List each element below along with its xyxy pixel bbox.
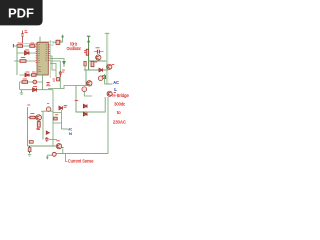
transistor Q9	[82, 87, 92, 96]
wire stub above IC	[39, 37, 41, 43]
sensor X2 (current transformer)	[52, 152, 56, 156]
svg-text:Current Sense: Current Sense	[68, 159, 94, 164]
wire left vertical	[16, 46, 18, 75]
rail pair (AC bus)	[106, 34, 107, 85]
wire row h-bridge top	[84, 69, 108, 71]
resistor R3	[20, 73, 43, 77]
wire mid column vertical	[88, 37, 90, 70]
resistor R4	[20, 80, 43, 84]
wire fanout from IC pins	[50, 56, 64, 77]
wire	[85, 70, 87, 86]
svg-text:L: L	[114, 87, 117, 92]
wire bottom of staircase	[48, 86, 76, 89]
wire verticals lower-left block	[20, 75, 43, 93]
svg-text:to: to	[117, 110, 121, 115]
value label	[18, 42, 35, 44]
label 50Hz Oscillator	[67, 42, 82, 51]
transistor Q7	[56, 141, 63, 154]
ground	[46, 155, 52, 160]
svg-text:H-Bridge: H-Bridge	[112, 93, 129, 98]
PDF badge	[0, 0, 43, 25]
resistor R5	[84, 49, 89, 55]
diode D3	[59, 105, 67, 109]
power flag P2 (down arrow)	[63, 61, 66, 67]
capacitor C4	[59, 70, 65, 89]
IC pin stubs right	[48, 45, 50, 60]
value label	[25, 49, 29, 51]
wire rows	[53, 113, 62, 124]
wire light rail above left rows	[21, 43, 38, 45]
value label	[27, 104, 30, 106]
wire vertical	[104, 74, 106, 84]
transistor Q2	[107, 64, 115, 69]
node AC L	[113, 80, 119, 92]
resistor R6	[91, 61, 97, 66]
diode D7	[83, 112, 87, 116]
capacitor C5	[52, 78, 59, 82]
capacitor C1 (top-left electrolytic)	[21, 31, 28, 44]
transistor Q8	[107, 91, 116, 96]
value label	[21, 57, 25, 59]
diode D2	[20, 88, 53, 92]
wire bottom rail B	[56, 153, 108, 155]
crystal X1	[56, 40, 62, 44]
label H-Bridge	[112, 93, 129, 124]
svg-text:Oscillator: Oscillator	[67, 46, 82, 51]
wire top bus	[53, 41, 63, 43]
value label	[23, 78, 27, 80]
ground	[20, 93, 23, 94]
svg-text:N: N	[69, 131, 72, 136]
IC pin stubs left	[36, 45, 37, 63]
resistor R10	[54, 115, 58, 120]
wire to AC N	[62, 128, 68, 130]
transistor Q3	[87, 81, 92, 86]
diode D1	[17, 51, 36, 55]
power flag P3 (up arrow)	[87, 39, 90, 42]
node tick left	[12, 44, 14, 47]
resistor R2	[14, 60, 36, 63]
wire loop above IC pins	[39, 42, 53, 45]
diode D6	[75, 100, 87, 108]
svg-text:230AC: 230AC	[113, 119, 127, 124]
value label	[25, 71, 35, 73]
value label	[33, 86, 37, 88]
transistor Q4	[98, 76, 103, 81]
svg-text:300dc: 300dc	[114, 102, 126, 107]
resistor R8	[28, 114, 36, 119]
wire top link	[76, 85, 92, 87]
wire lower-left vertical	[27, 107, 29, 146]
transistor Q6	[41, 104, 53, 112]
op-amp IC U1 (timer body)	[37, 42, 48, 75]
wire right loop vertical	[87, 97, 108, 154]
resistor R9	[37, 122, 41, 130]
svg-text:PDF: PDF	[8, 6, 34, 21]
resistor R1	[14, 45, 36, 48]
resistor R11	[29, 141, 33, 144]
svg-text:AC: AC	[113, 80, 119, 85]
diode D5	[99, 68, 102, 72]
wire stub to label	[66, 154, 68, 162]
transistor Q5	[36, 115, 42, 121]
wire center-right verticals	[76, 86, 87, 113]
wire verticals center-bottom	[43, 90, 62, 146]
capacitor C6	[45, 137, 57, 142]
diode D4	[36, 128, 49, 134]
wire row to AC L	[105, 83, 113, 85]
power flag P1 (up arrow)	[61, 34, 64, 42]
transistor Q1	[96, 55, 101, 60]
resistor R12	[84, 61, 86, 70]
node VCC tick mid column	[87, 35, 90, 37]
resistor R7	[99, 76, 105, 79]
capacitor C8 (left of cluster)	[46, 83, 51, 86]
wire bottom rail A	[28, 145, 58, 147]
node tick top of rails	[105, 32, 110, 34]
capacitor C2	[94, 48, 104, 54]
node AC N	[68, 126, 72, 136]
capacitor C7	[28, 146, 31, 156]
wire row	[89, 60, 107, 62]
wire vertical right of IC	[49, 40, 51, 78]
